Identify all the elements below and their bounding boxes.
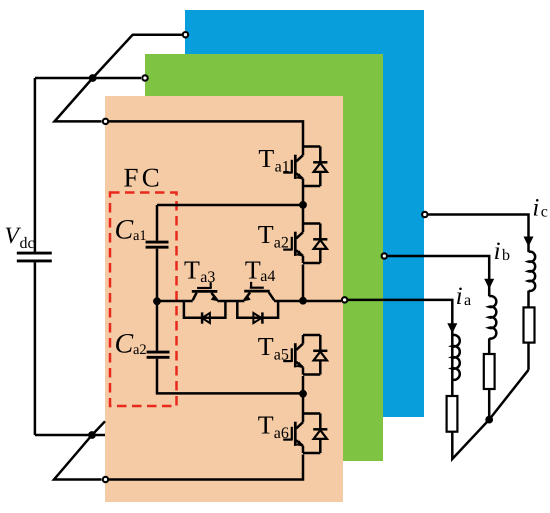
- svg-text:C: C: [115, 328, 134, 359]
- svg-text:i: i: [494, 238, 501, 265]
- svg-text:b: b: [502, 247, 510, 264]
- svg-text:i: i: [532, 195, 539, 222]
- svg-text:T: T: [258, 220, 274, 249]
- svg-text:a2: a2: [133, 342, 147, 358]
- svg-text:a5: a5: [274, 346, 289, 363]
- svg-text:T: T: [184, 256, 200, 285]
- svg-text:a4: a4: [260, 268, 275, 285]
- svg-text:C: C: [115, 215, 134, 246]
- svg-text:i: i: [456, 283, 463, 310]
- svg-text:a3: a3: [200, 269, 215, 286]
- svg-text:a: a: [464, 292, 471, 309]
- svg-text:FC: FC: [124, 162, 163, 192]
- svg-text:T: T: [258, 332, 274, 361]
- svg-text:a6: a6: [274, 425, 289, 442]
- svg-text:a1: a1: [275, 158, 290, 175]
- svg-text:a1: a1: [133, 228, 147, 244]
- svg-text:dc: dc: [20, 235, 35, 252]
- svg-text:T: T: [258, 411, 274, 440]
- svg-text:a2: a2: [274, 235, 289, 252]
- svg-text:T: T: [258, 144, 274, 173]
- svg-text:T: T: [245, 256, 261, 285]
- svg-text:c: c: [541, 204, 548, 221]
